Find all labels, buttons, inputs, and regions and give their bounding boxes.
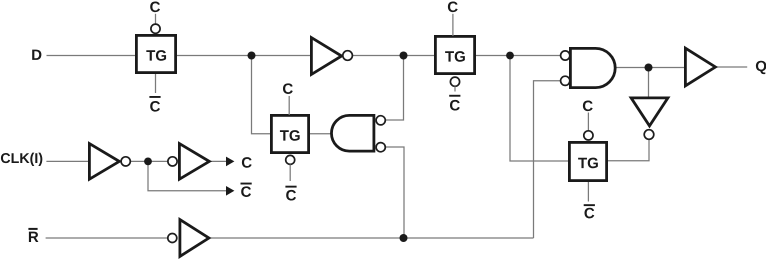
wire TG3 to NAND U8 output [309, 133, 332, 135]
wire C to TG4 bubble [587, 113, 589, 131]
buffer U10 [179, 144, 209, 180]
bubble top of TG4 [584, 131, 593, 140]
node CLK(I) label [1, 153, 42, 166]
label C top of TG1 [150, 2, 160, 13]
wire node Q1 down to inverter U6 [648, 68, 650, 98]
label C top of TG4 [583, 101, 593, 112]
wire node A to inverter U2 [252, 55, 312, 57]
wire node C to NOR U4 top input [510, 55, 561, 57]
wire node CK down to arrow C-bar [148, 161, 227, 190]
buffer U10 input bubble [168, 157, 177, 166]
junction node CK [144, 158, 152, 166]
label C top of TG3 [283, 83, 293, 94]
bubble U4 top input [561, 51, 570, 60]
wire CLK to inverter U9 [46, 160, 89, 162]
wire U2 bubble to node B [353, 55, 404, 57]
inverter U6 (pointing down) [631, 98, 668, 126]
inverter U11 (R) input bubble [168, 234, 177, 243]
label C-bar internal clock [241, 183, 252, 185]
bubble U8 top input [376, 116, 385, 125]
junction node A [248, 52, 256, 60]
wire U6 bubble to TG4 [607, 139, 649, 160]
wire TG2 to node C [475, 55, 510, 57]
label C-bar bottom of TG1 [149, 96, 160, 98]
wire node B down to NAND U8 top input [385, 56, 403, 121]
bubble of U2 [343, 51, 353, 61]
wire U9 bubble to node CK [130, 160, 148, 162]
node D label [32, 50, 41, 60]
wire TG1 to node A [176, 55, 252, 57]
NAND gate U8 (left-pointing AND, inverted inputs) [331, 115, 373, 151]
wire C to TG2 [452, 14, 454, 36]
node R-bar label [28, 228, 37, 230]
wire buffer U5 to Q [717, 66, 748, 68]
wire C to TG3 [288, 96, 290, 115]
wire TG2 bubble to C-bar [454, 86, 456, 91]
wire NOR U4 bottom input from R line riser [534, 81, 561, 238]
transmission gate TG3 [271, 115, 308, 152]
label C-bar bottom of TG2 [449, 95, 460, 97]
bubble U4 bottom input [561, 76, 570, 85]
wire NAND U8 bottom input down to node R1 [385, 147, 404, 238]
junction node C [506, 52, 514, 60]
wire TG3 bubble to C-bar [289, 164, 291, 181]
NOR gate U4 (AND body, inverted inputs) [570, 48, 615, 87]
wire node R1 to NOR riser [404, 237, 534, 239]
arrowhead C [226, 157, 234, 167]
wire TG1 bottom to C-bar [155, 74, 157, 93]
inverter U11 (R) [180, 220, 209, 257]
wire node CK to buffer U10 [148, 160, 168, 162]
transmission gate TG1 [136, 35, 175, 72]
wire U11 to node R1 [210, 237, 404, 239]
wire NOR U4 output to node Q1 [615, 67, 648, 69]
wire buffer U10 to arrow C [210, 160, 228, 162]
bubble bottom of TG3 [286, 155, 295, 164]
junction node Q1 [645, 64, 653, 72]
label C internal clock [242, 157, 252, 168]
junction node R1 [400, 234, 408, 242]
bubble U8 bottom input [376, 143, 385, 152]
label C-bar bottom of TG3 [285, 186, 296, 188]
transmission gate TG4 [569, 142, 606, 180]
bubble bottom of TG2 [450, 77, 459, 86]
bubble of U6 [644, 130, 654, 140]
node Q label [756, 61, 766, 74]
bubble of U9 [121, 157, 130, 166]
wire R to inverter U11 [46, 237, 169, 239]
inverter U9 (CLK) [89, 144, 119, 180]
wire node Q1 to buffer U5 [649, 67, 686, 69]
wire node A down to TG3 [252, 56, 272, 134]
junction node B [400, 52, 408, 60]
wire D to TG1 [47, 55, 137, 57]
label C top of TG2 [448, 2, 458, 13]
wire C to TG1 bubble [155, 14, 157, 24]
label C-bar bottom of TG4 [584, 204, 595, 206]
bubble top of TG1 [151, 24, 160, 33]
transmission gate TG2 [435, 36, 474, 73]
wire node B to TG2 [404, 55, 436, 57]
wire TG4 bottom to C-bar [587, 182, 589, 202]
inverter U2 [311, 38, 341, 75]
output buffer U5 [685, 48, 715, 86]
arrowhead C-bar [226, 186, 234, 196]
wire node C down to TG4 [510, 56, 569, 162]
